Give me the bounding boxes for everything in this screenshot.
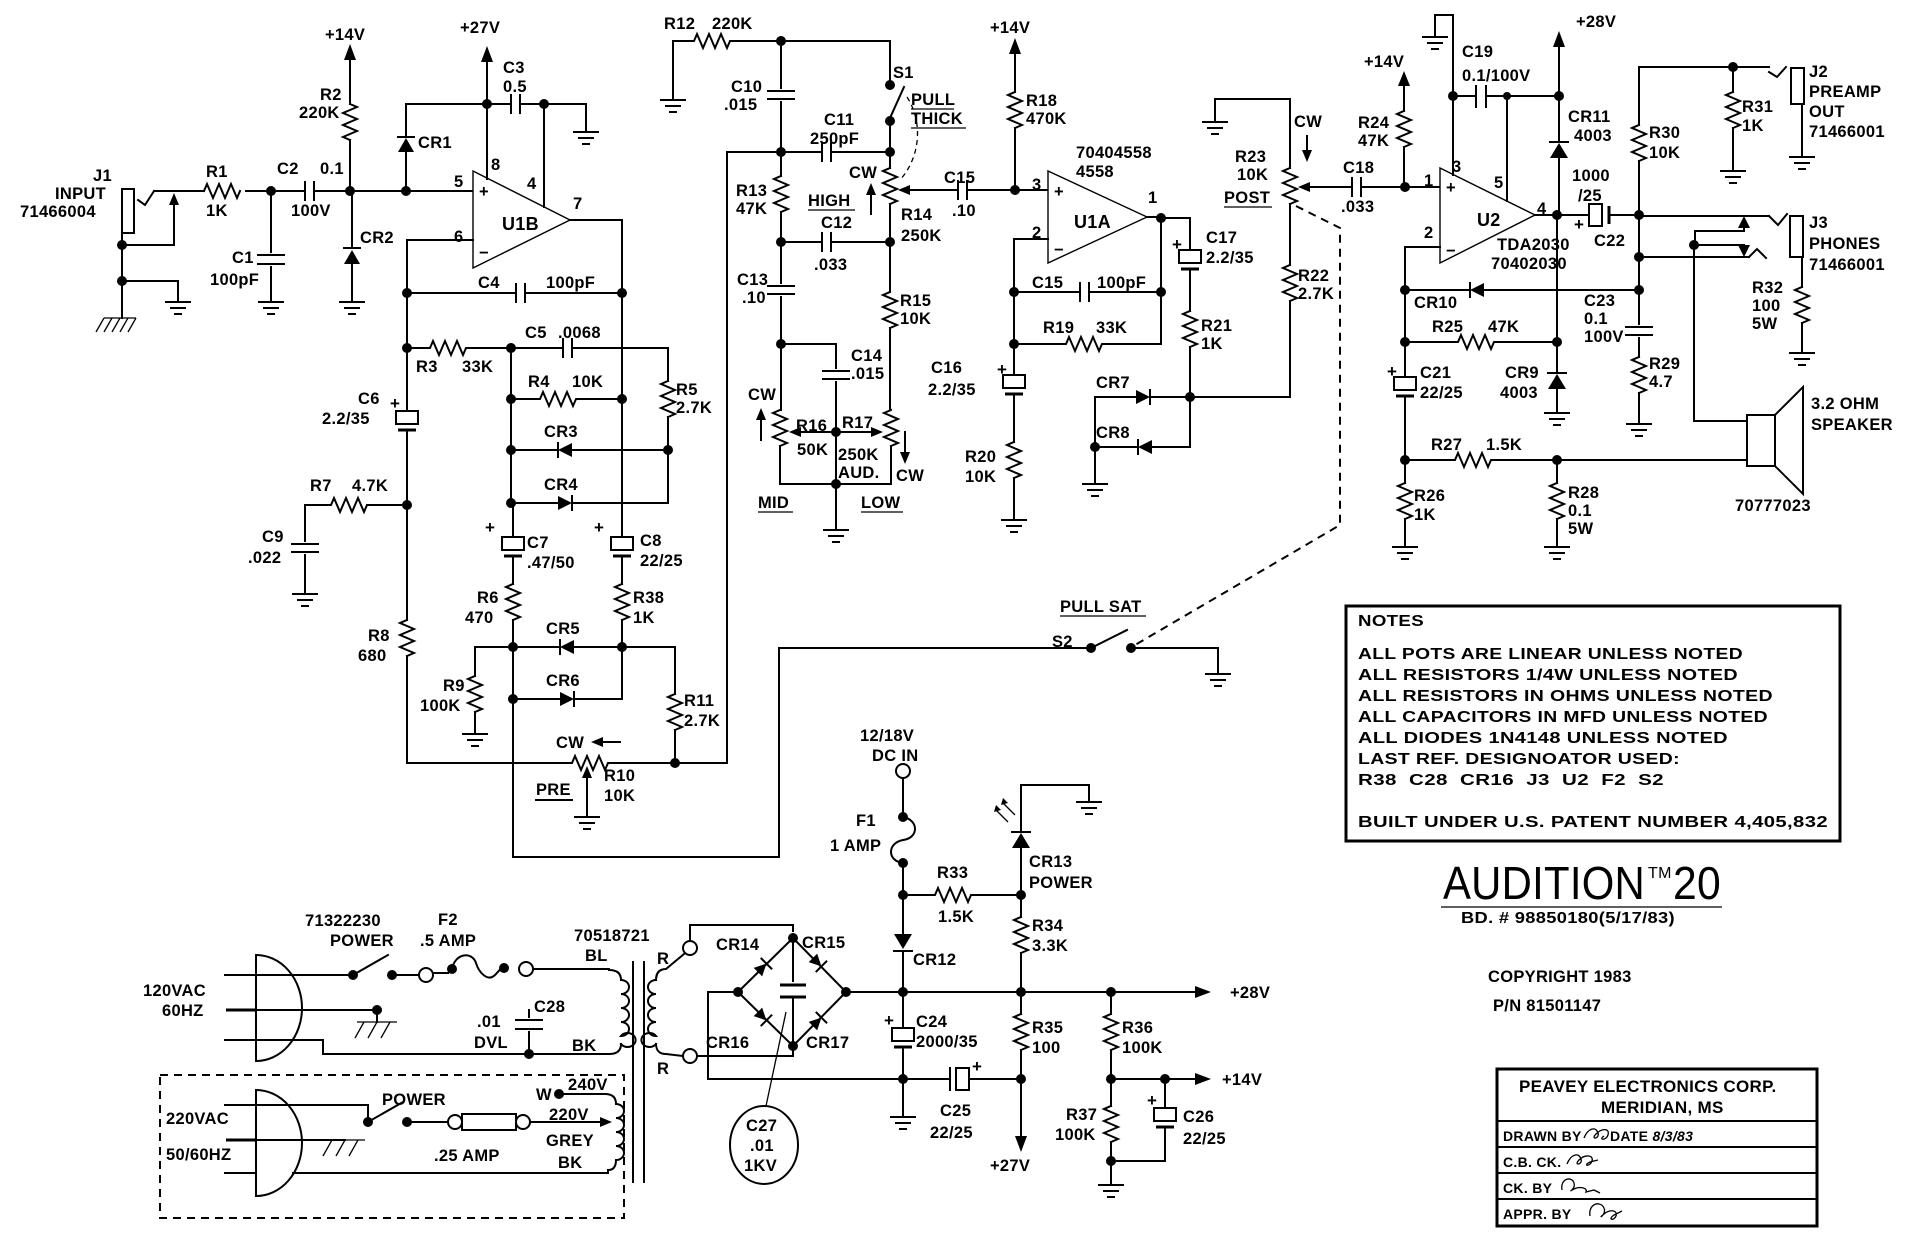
AUDITION 20 title (1441, 857, 1722, 927)
svg-text:R31: R31 (1742, 98, 1773, 116)
svg-text:U1B: U1B (502, 214, 539, 234)
svg-text:LOW: LOW (861, 494, 901, 512)
svg-text:250K: 250K (838, 446, 879, 464)
svg-text:THICK: THICK (911, 110, 963, 128)
node CR5 right (617, 642, 627, 652)
svg-text:70402030: 70402030 (1491, 255, 1567, 273)
svg-text:R38: R38 (633, 589, 664, 607)
svg-text:R9: R9 (443, 677, 465, 695)
node CR8 left (1090, 442, 1100, 452)
svg-text:1K: 1K (206, 202, 228, 220)
svg-text:+: + (1446, 179, 1456, 197)
wire CR5 right to R11 (622, 647, 675, 694)
svg-text:C28: C28 (534, 998, 565, 1016)
node R36/rail (1106, 987, 1116, 997)
svg-text:0.1: 0.1 (1568, 502, 1592, 520)
ground (C19 left) (1423, 15, 1453, 96)
node R2/CR2 junction (345, 186, 355, 196)
svg-text:220K: 220K (299, 104, 340, 122)
resistor R29 4.7 (1632, 355, 1680, 422)
svg-text:DATE 8/3/83: DATE 8/3/83 (1610, 1128, 1693, 1144)
svg-text:R18: R18 (1026, 92, 1057, 110)
resistor R26 1K (1398, 460, 1445, 545)
node R36/R37 (1106, 1074, 1116, 1084)
svg-text:R1: R1 (206, 163, 228, 181)
node bridge right (841, 987, 851, 997)
node R10/R11 junction (670, 758, 680, 768)
resistor R9 100K (420, 647, 482, 732)
svg-text:R16: R16 (796, 417, 827, 435)
svg-text:C15: C15 (944, 169, 975, 187)
wire bridge bottom to terminal (792, 1046, 794, 1056)
electrolytic C22 1000/25 (1535, 167, 1639, 257)
svg-text:C18: C18 (1343, 159, 1374, 177)
ground (C3) (574, 104, 598, 144)
svg-text:C.B. CK.: C.B. CK. (1503, 1154, 1561, 1170)
svg-text:0.1: 0.1 (1584, 310, 1608, 328)
svg-text:DC IN: DC IN (872, 747, 918, 765)
svg-text:R37: R37 (1066, 1106, 1097, 1124)
PULL SAT label (1060, 598, 1146, 616)
node CR12/rail (898, 987, 908, 997)
diode CR5 (513, 620, 622, 654)
svg-text:100pF: 100pF (546, 274, 595, 292)
svg-text:CR4: CR4 (544, 476, 578, 494)
op-amp U1A (1032, 144, 1157, 263)
resistor R28 0.1 5W (1550, 460, 1599, 545)
svg-text:1.5K: 1.5K (938, 908, 974, 926)
dashed link pot R23 to S2 (1135, 206, 1340, 645)
resistor R21 1K (1183, 311, 1232, 397)
svg-text:47K: 47K (736, 200, 767, 218)
wire tone bottom to ground (835, 432, 837, 528)
wire pin4 (543, 104, 545, 207)
node R4 left (506, 394, 516, 404)
jack switch contact arrow (117, 193, 179, 250)
svg-text:OUT: OUT (1809, 103, 1845, 121)
svg-text:R38 C28 CR16 J3 U2 F2 S2: R38 C28 CR16 J3 U2 F2 S2 (1358, 772, 1664, 789)
bridge rectifier frame (738, 938, 846, 1046)
transformer secondary (641, 950, 684, 1078)
resistor R33 1.5K (903, 864, 1021, 926)
svg-text:+28V: +28V (1576, 13, 1616, 31)
svg-text:C25: C25 (940, 1102, 971, 1120)
svg-text:GREY: GREY (546, 1132, 594, 1150)
svg-text:100K: 100K (420, 697, 461, 715)
svg-text:DVL: DVL (474, 1034, 508, 1052)
node R35/C25 (1016, 1074, 1026, 1084)
electrolytic C26 22/25 (1111, 1079, 1226, 1161)
svg-text:APPR. BY: APPR. BY (1503, 1206, 1572, 1222)
resistor R6 470 (465, 584, 520, 647)
ground (CR9) (1545, 413, 1569, 425)
capacitor C18 .033 (1341, 159, 1405, 216)
wire R1 to C2 (246, 190, 305, 192)
svg-text:10K: 10K (900, 310, 931, 328)
svg-text:470: 470 (465, 609, 493, 627)
diode CR6 (513, 647, 622, 706)
svg-text:R: R (657, 1060, 669, 1078)
electrolytic C17 2.2/35 (1172, 229, 1254, 311)
resistor R31 1K (1726, 67, 1773, 169)
op-amp U2 TDA2030 (1424, 158, 1570, 273)
wire U1B pin7 output (570, 220, 622, 293)
phones switch contacts (1689, 216, 1750, 421)
node R4 right (617, 394, 627, 404)
capacitor C2 0.1 100V (277, 160, 350, 220)
wire CR6 left down and right to pre-loop (513, 648, 779, 857)
svg-text:R21: R21 (1201, 317, 1232, 335)
diode CR16 (706, 1007, 771, 1052)
svg-text:250K: 250K (901, 227, 942, 245)
svg-text:1000: 1000 (1572, 167, 1610, 185)
ground (CR13) (1077, 802, 1101, 814)
svg-text:+: + (1147, 1091, 1157, 1110)
wire C5 node down (510, 348, 512, 503)
node CR10 right (1634, 285, 1644, 295)
svg-text:R6: R6 (477, 589, 499, 607)
svg-text:.10: .10 (742, 289, 766, 307)
chassis ground (220V) (323, 1140, 365, 1156)
svg-text:CR13: CR13 (1029, 853, 1072, 871)
node CR4 left (506, 498, 516, 508)
electrolytic C24 2000/35 (884, 992, 978, 1079)
resistor R20 10K (965, 442, 1021, 518)
svg-text:C5: C5 (525, 324, 547, 342)
svg-text:+: + (972, 1057, 982, 1076)
resistor R22 2.7K (1283, 265, 1334, 397)
svg-text:CR15: CR15 (802, 934, 845, 952)
wire node to U1A pin3 (1015, 189, 1048, 191)
svg-text:22/25: 22/25 (1420, 384, 1463, 402)
dashed export box 220VAC (160, 1075, 624, 1218)
ground (R28) (1545, 547, 1569, 559)
svg-text:10K: 10K (604, 787, 635, 805)
node R7 junction (402, 500, 412, 510)
svg-text:C14: C14 (851, 347, 883, 365)
svg-text:33K: 33K (462, 358, 493, 376)
svg-text:10K: 10K (572, 373, 603, 391)
svg-text:+14V: +14V (325, 26, 365, 44)
svg-text:4003: 4003 (1500, 384, 1538, 402)
node CR1 junction (401, 186, 411, 196)
svg-text:BK: BK (572, 1037, 596, 1055)
node C4 right (617, 288, 627, 298)
chassis ground (mains) (355, 1005, 397, 1038)
svg-text:CR14: CR14 (716, 936, 760, 954)
svg-text:R11: R11 (684, 692, 714, 710)
resistor R32 100 5W (1752, 257, 1809, 351)
svg-text:TM: TM (1648, 865, 1672, 882)
ground (tone stack) (824, 530, 848, 542)
switch POWER (220V) (300, 1091, 448, 1127)
svg-text:71466001: 71466001 (1809, 256, 1885, 274)
svg-text:10K: 10K (1649, 144, 1680, 162)
ground (S2) (1206, 674, 1230, 686)
svg-text:R25: R25 (1432, 318, 1463, 336)
node C15 left (1009, 287, 1019, 297)
node R27 right (1552, 455, 1562, 465)
svg-text:.015: .015 (851, 365, 884, 383)
svg-text:8: 8 (491, 156, 500, 174)
wire bridge left to dc return (708, 992, 903, 1079)
capacitor C9 .022 (248, 505, 318, 592)
svg-text:R13: R13 (736, 182, 767, 200)
svg-text:PEAVEY ELECTRONICS CORP.: PEAVEY ELECTRONICS CORP. (1519, 1077, 1777, 1096)
svg-text:AUD.: AUD. (838, 464, 880, 482)
diode CR14 (716, 936, 771, 977)
node C24 bottom (898, 1074, 908, 1084)
svg-text:CR6: CR6 (546, 672, 580, 690)
ground (R12 left) (661, 41, 685, 112)
svg-text:R19: R19 (1043, 319, 1074, 337)
svg-text:R23: R23 (1235, 148, 1266, 166)
svg-text:CW: CW (748, 386, 776, 404)
resistor R19 33K (1014, 292, 1161, 351)
wire U2 pin3 (1452, 96, 1454, 175)
signature ck by (1562, 1179, 1600, 1193)
svg-text:C22: C22 (1594, 232, 1625, 250)
svg-text:C10: C10 (731, 78, 762, 96)
svg-text:C16: C16 (931, 359, 962, 377)
resistor R24 47K (1358, 86, 1411, 187)
svg-text:+: + (884, 1011, 894, 1030)
svg-text:71466001: 71466001 (1809, 123, 1885, 141)
svg-text:2.7K: 2.7K (684, 712, 720, 730)
svg-text:2.7K: 2.7K (676, 399, 712, 417)
svg-text:C23: C23 (1584, 292, 1615, 310)
svg-text:C9: C9 (262, 528, 284, 546)
AC plug 120VAC (143, 955, 529, 1061)
svg-text:70518721: 70518721 (574, 927, 650, 945)
svg-text:CW: CW (556, 734, 584, 752)
svg-text:1.5K: 1.5K (1486, 436, 1522, 454)
svg-text:P/N 81501147: P/N 81501147 (1493, 997, 1601, 1015)
svg-text:R5: R5 (676, 381, 698, 399)
svg-text:R36: R36 (1122, 1019, 1153, 1037)
potentiometer R10 10K PRE (407, 734, 675, 815)
ground (C9) (293, 594, 317, 606)
svg-text:60HZ: 60HZ (162, 1002, 204, 1020)
ground (R32) (1790, 353, 1814, 365)
svg-text:CK. BY: CK. BY (1503, 1180, 1553, 1196)
resistor R5 2.7K (661, 348, 712, 450)
resistor R7 4.7K (305, 477, 407, 512)
svg-text:4003: 4003 (1574, 127, 1612, 145)
transformer core (633, 962, 644, 1182)
svg-text:R3: R3 (416, 358, 438, 376)
secondary terminal bottom (683, 1049, 793, 1063)
capacitor C14 .015 (781, 344, 884, 432)
svg-text:PREAMP: PREAMP (1809, 83, 1881, 101)
svg-text:2: 2 (1424, 224, 1433, 242)
jack sleeve wire to ground (117, 276, 178, 300)
svg-text:CR1: CR1 (418, 134, 452, 152)
svg-text:POWER: POWER (382, 1091, 446, 1109)
svg-text:6: 6 (454, 228, 463, 246)
node C22 right (1634, 210, 1644, 220)
ground (R31) (1721, 171, 1745, 183)
svg-text:+: + (1054, 183, 1064, 201)
diode CR7 (1095, 374, 1290, 404)
+28V rail (846, 984, 1270, 1002)
ground (R29) (1627, 424, 1651, 436)
svg-text:.5 AMP: .5 AMP (420, 932, 476, 950)
connector J2 PREAMP OUT (1769, 63, 1885, 155)
node C18 right (1400, 182, 1410, 192)
svg-text:U1A: U1A (1074, 212, 1111, 232)
svg-text:+: + (1387, 362, 1397, 381)
resistor R13 47K (736, 152, 788, 242)
svg-text:10K: 10K (965, 468, 996, 486)
node CR3 left (506, 445, 516, 455)
svg-text:2.2/35: 2.2/35 (928, 381, 976, 399)
svg-text:1K: 1K (1742, 117, 1764, 135)
ground (R20) (1002, 520, 1026, 532)
svg-text:2000/35: 2000/35 (916, 1033, 978, 1051)
svg-text:BD. # 98850180(5/17/83): BD. # 98850180(5/17/83) (1461, 910, 1675, 927)
svg-text:C17: C17 (1206, 229, 1237, 247)
wire R10 row to tone loop vertical (675, 152, 727, 763)
resistor R11 2.7K (668, 692, 720, 763)
svg-text:R22: R22 (1298, 267, 1329, 285)
+27V power arrow (460, 19, 500, 104)
+28V power arrow (CR11) (1553, 13, 1616, 47)
svg-text:C4: C4 (478, 274, 500, 292)
svg-text:R32: R32 (1752, 279, 1783, 297)
node R3 left (402, 343, 412, 353)
svg-text:−: − (1054, 241, 1064, 259)
svg-text:MID: MID (758, 494, 789, 512)
svg-text:PULL SAT: PULL SAT (1060, 598, 1142, 616)
svg-text:220K: 220K (712, 15, 753, 33)
svg-text:+14V: +14V (1222, 1071, 1262, 1089)
svg-text:5: 5 (1494, 174, 1503, 192)
diode CR12 (894, 895, 956, 992)
svg-text:POWER: POWER (1029, 874, 1093, 892)
svg-text:POWER: POWER (330, 932, 394, 950)
capacitor C3 0.5 (406, 59, 586, 113)
svg-text:3.3K: 3.3K (1032, 937, 1068, 955)
wire U2 pin5 (1506, 96, 1508, 201)
svg-text:BUILT UNDER U.S. PATENT NUMBER: BUILT UNDER U.S. PATENT NUMBER 4,405,832 (1358, 814, 1828, 831)
wire node to S1 (781, 41, 890, 80)
ground (C24) (891, 1079, 915, 1129)
svg-text:J2: J2 (1809, 63, 1828, 81)
resistor R12 220K (664, 15, 781, 48)
node R33 right (1016, 890, 1026, 900)
svg-text:CW: CW (849, 164, 877, 182)
diode CR1 (398, 104, 452, 191)
ground (R23 top) (1203, 122, 1227, 134)
wire bridge right to +28 rail (846, 991, 903, 993)
PULL THICK label (900, 91, 966, 180)
node bridge bottom (788, 1041, 798, 1051)
capacitor C15 .10 (944, 169, 1015, 220)
svg-text:.033: .033 (1341, 198, 1374, 216)
svg-text:C6: C6 (358, 390, 380, 408)
node CR10 left (1400, 285, 1410, 295)
svg-text:1 AMP: 1 AMP (830, 837, 881, 855)
svg-text:4.7: 4.7 (1649, 373, 1673, 391)
svg-text:100: 100 (1032, 1039, 1060, 1057)
svg-text:22/25: 22/25 (640, 552, 683, 570)
svg-text:100: 100 (1752, 297, 1780, 315)
node C12 right (885, 237, 895, 247)
signature appr by (1590, 1204, 1622, 1219)
svg-text:R2: R2 (320, 86, 342, 104)
svg-text:R29: R29 (1649, 355, 1680, 373)
svg-text:U2: U2 (1477, 210, 1501, 230)
svg-text:−: − (1446, 242, 1456, 260)
resistor R8 680 (358, 505, 414, 763)
svg-text:C3: C3 (503, 59, 525, 77)
svg-text:1K: 1K (633, 609, 655, 627)
svg-text:CR17: CR17 (806, 1034, 849, 1052)
svg-text:PRE: PRE (536, 781, 571, 799)
NOTES box (1346, 606, 1840, 841)
svg-text:+14V: +14V (1364, 53, 1404, 71)
wire R27 to speaker (1557, 459, 1747, 461)
node R34/rail (1016, 987, 1026, 997)
svg-text:+: + (594, 518, 604, 537)
svg-text:C26: C26 (1183, 1108, 1214, 1126)
svg-text:100pF: 100pF (1097, 274, 1146, 292)
node U1A output pin1 (1156, 213, 1166, 223)
node R12/C10 (776, 36, 786, 46)
svg-text:5W: 5W (1752, 315, 1777, 333)
diode CR2 (344, 191, 394, 300)
svg-text:.0068: .0068 (558, 324, 601, 342)
svg-text:100pF: 100pF (210, 271, 259, 289)
resistor R1 1K (204, 163, 240, 220)
capacitor C27 (snubber) (780, 938, 806, 1046)
node CR5 left (508, 642, 518, 652)
resistor R2 220K (299, 60, 357, 191)
svg-text:1: 1 (1424, 172, 1433, 190)
ground (CR8) (1083, 447, 1107, 496)
node C1 junction (266, 186, 276, 196)
svg-text:4.7K: 4.7K (352, 477, 388, 495)
connector J1 INPUT (20, 167, 154, 318)
node F1/R33 (898, 890, 908, 900)
svg-text:CR10: CR10 (1414, 294, 1457, 312)
wire J3 tip row (1639, 215, 1769, 217)
diode CR3 (511, 423, 668, 457)
electrolytic C25 22/25 (903, 1057, 1020, 1142)
potentiometer R14 250K HIGH (808, 152, 958, 245)
svg-text:+: + (485, 518, 495, 537)
svg-text:250pF: 250pF (810, 130, 859, 148)
ground (R37) (1099, 1161, 1123, 1197)
capacitor C19 0.1/100V (1448, 43, 1559, 107)
svg-text:R: R (657, 950, 669, 968)
svg-text:CR9: CR9 (1505, 364, 1539, 382)
svg-text:2.7K: 2.7K (1298, 285, 1334, 303)
svg-text:R30: R30 (1649, 124, 1680, 142)
svg-text:COPYRIGHT 1983: COPYRIGHT 1983 (1488, 968, 1632, 986)
svg-text:CR7: CR7 (1096, 374, 1130, 392)
node C4 left (402, 288, 412, 298)
capacitor C23 0.1 100V (1584, 290, 1652, 357)
svg-text:240V: 240V (568, 1076, 608, 1094)
wire CR5 left down to CR6 (512, 647, 514, 699)
svg-text:680: 680 (358, 647, 386, 665)
electrolytic C7 .47/50 (485, 503, 575, 584)
svg-text:0.1/100V: 0.1/100V (1462, 67, 1530, 85)
ground (R9) (463, 734, 487, 746)
node CR7/R21 (1185, 392, 1195, 402)
